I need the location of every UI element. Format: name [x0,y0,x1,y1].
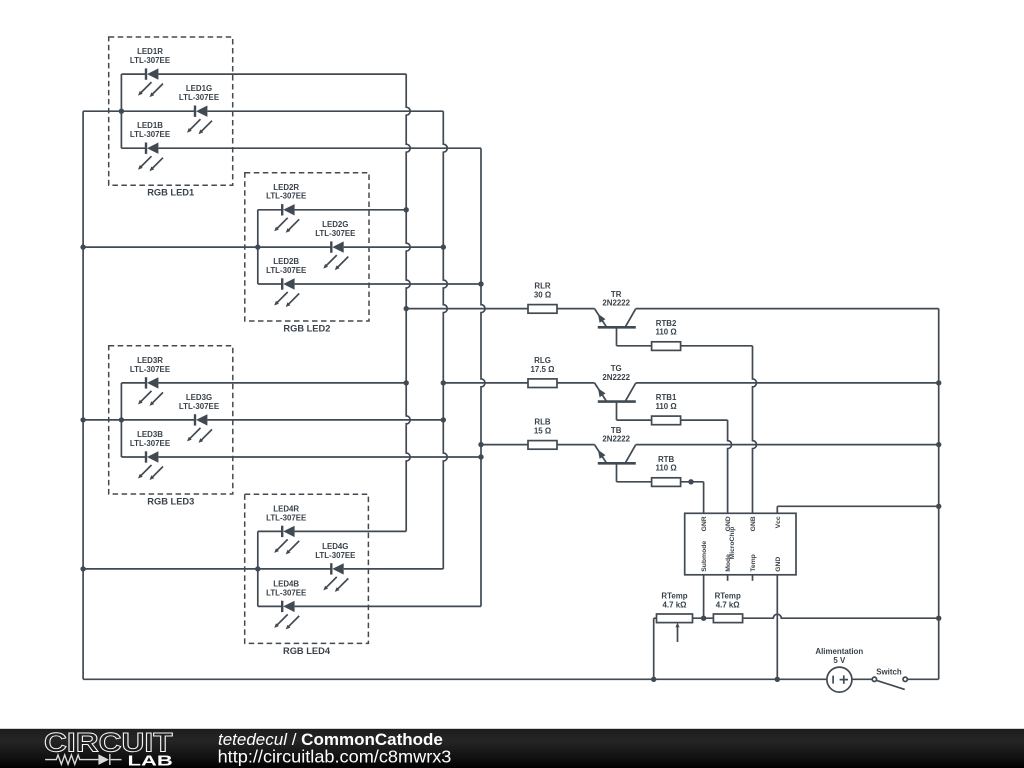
node inner junction RGB LED2 [255,244,260,249]
svg-text:Mode: Mode [725,554,732,572]
svg-text:RTB: RTB [658,455,675,464]
svg-text:GNB: GNB [750,516,757,531]
LED LED3R LTL-307EE [130,356,170,406]
LED LED2B LTL-307EE [266,257,306,307]
svg-text:LED1B: LED1B [137,121,163,130]
svg-text:RTB1: RTB1 [656,393,677,402]
LED LED4R LTL-307EE [266,504,306,554]
svg-text:LTL-307EE: LTL-307EE [315,229,355,238]
wire collector TG to right rail [636,382,939,384]
svg-text:Vcc: Vcc [775,516,782,528]
node common junction LED3 [80,417,85,422]
node red bus junction LED2R [404,207,409,212]
LED LED1G LTL-307EE [179,84,219,134]
node inner junction RGB LED3 [119,417,124,422]
svg-text:17.5 Ω: 17.5 Ω [531,365,555,374]
potentiometer RTemp 4.7 k&#937; [657,591,693,642]
wire right rail vertical [908,309,939,680]
svg-text:LTL-307EE: LTL-307EE [130,130,170,139]
node inner junction RGB LED1 [119,109,124,114]
svg-text:4.7 kΩ: 4.7 kΩ [716,600,740,609]
wire inner cathode vertical RGB LED4 [257,531,259,606]
svg-text:30 Ω: 30 Ω [534,291,551,300]
resistor RLR 30 &#937; [528,282,557,314]
resistor RTB 110 &#937; [652,455,681,487]
svg-text:LTL-307EE: LTL-307EE [266,588,306,597]
svg-text:2N2222: 2N2222 [602,435,630,444]
wire bottom ground rail [83,678,827,680]
svg-text:LTL-307EE: LTL-307EE [315,551,355,560]
svg-text:LED2R: LED2R [273,183,299,192]
wire common cathode of RGB LED4 to left rail [83,568,258,570]
wire collector TB to right rail [636,444,939,446]
wire collector TR to right rail [636,308,939,310]
svg-text:LED3B: LED3B [137,430,163,439]
node blue bus junction LED3B [478,454,483,459]
transistor TB 2N2222 [595,426,636,464]
dashed box RGB LED4 [245,494,369,656]
pin label Submode [701,541,708,572]
voltage source V1 Alimentation 5 V [815,647,863,692]
pin label Temp [750,554,757,572]
wire RTB1 to chip pin GND [681,420,732,513]
node right rail junction Vcc [936,504,941,509]
svg-text:LED3R: LED3R [137,356,163,365]
LED LED4B LTL-307EE [266,579,306,629]
svg-text:5 V: 5 V [833,656,846,665]
svg-text:RTB2: RTB2 [656,319,677,328]
svg-text:LTL-307EE: LTL-307EE [130,56,170,65]
svg-text:LED1R: LED1R [137,47,163,56]
resistor RTB2 110 &#937; [652,319,681,351]
resistor RLB 15 &#937; [528,418,557,450]
svg-text:LTL-307EE: LTL-307EE [266,266,306,275]
CircuitLab logo resistor-diode glyph [45,754,121,765]
node right rail junction TB [936,442,941,447]
dashed box RGB LED2 [245,173,369,334]
svg-text:LTL-307EE: LTL-307EE [266,192,306,201]
wire RTemp2 to right rail [743,614,939,618]
node green bus junction LED2G [441,244,446,249]
footer bar [0,729,1024,768]
transistor TR 2N2222 [595,290,636,328]
node inner junction RGB LED4 [255,566,260,571]
wire blue bus vertical [481,148,485,606]
svg-text:http://circuitlab.com/c8mwrx3: http://circuitlab.com/c8mwrx3 [218,746,452,766]
node blue bus junction RLB [478,442,483,447]
pin stub Temp [752,575,754,581]
pin stub Mode [727,575,729,581]
svg-text:LED1G: LED1G [186,84,212,93]
dashed box RGB LED1 [109,37,233,198]
wire RTemp1 left leg [654,618,657,679]
wire anode row LED1G [121,110,443,112]
pin label GND bottom [775,557,782,572]
wire left common-cathode rail [82,111,84,679]
svg-text:110 Ω: 110 Ω [655,402,676,411]
wire inner cathode vertical RGB LED1 [120,74,122,148]
LED LED4G LTL-307EE [315,542,355,592]
svg-text:TR: TR [611,290,622,299]
svg-text:LED2B: LED2B [273,257,299,266]
svg-text:LED3G: LED3G [186,393,212,402]
wire battery to switch [852,678,872,680]
LED LED1B LTL-307EE [130,121,170,171]
wire RTB2 to chip pin GNB [681,346,757,514]
svg-text:TG: TG [611,364,622,373]
wire anode row LED1B [121,147,481,149]
wire Vcc pin to right rail [777,506,938,513]
wire common cathode of RGB LED2 to left rail [83,246,258,248]
wire base TB [617,463,652,482]
node common junction LED2 [80,244,85,249]
svg-text:LTL-307EE: LTL-307EE [179,93,219,102]
svg-text:Alimentation: Alimentation [815,647,863,656]
pin label GND top [725,516,732,531]
svg-text:LED2G: LED2G [322,220,348,229]
svg-text:LTL-307EE: LTL-307EE [266,513,306,522]
wire red bus vertical [406,74,410,531]
svg-text:110 Ω: 110 Ω [655,328,676,337]
node green bus junction RLG [441,380,446,385]
svg-text:GND: GND [775,557,782,572]
wire RTemp1 to RTemp2 [693,617,714,619]
wire base TR [617,327,652,346]
wire anode row LED4R [258,530,406,532]
wire RLR row [406,308,594,310]
resistor RTemp 4.7 k&#937; [713,591,742,622]
switch SW1 [872,667,907,689]
pin label Mode [725,554,732,572]
LED LED3B LTL-307EE [130,430,170,480]
svg-text:RGB LED3: RGB LED3 [147,497,194,507]
pin label GNR [701,516,708,531]
node RTemp row junction Submode [701,616,706,621]
svg-text:2N2222: 2N2222 [602,373,630,382]
wire anode row LED1R [121,73,406,75]
svg-text:RTemp: RTemp [661,591,687,600]
node green bus junction LED3G [441,417,446,422]
node blue bus junction LED2B [478,281,483,286]
wire green bus vertical [443,111,447,569]
node red bus junction RLR [404,306,409,311]
svg-text:15 Ω: 15 Ω [534,427,551,436]
svg-text:Switch: Switch [876,667,902,676]
pin label Vcc [775,516,782,528]
svg-text:Submode: Submode [701,541,708,572]
svg-text:LTL-307EE: LTL-307EE [130,365,170,374]
svg-text:RLR: RLR [534,282,551,291]
wire GND pin to bottom rail [776,575,778,680]
node right rail junction RTemp [936,616,941,621]
node red bus junction LED3R [404,380,409,385]
svg-text:RGB LED1: RGB LED1 [147,188,194,198]
svg-text:RGB LED2: RGB LED2 [283,324,330,334]
LED LED2R LTL-307EE [266,183,306,233]
node RTemp1 bottom junction [651,677,656,682]
wire anode row LED3G [121,419,443,421]
svg-text:LTL-307EE: LTL-307EE [130,439,170,448]
wire anode row LED3R [121,382,406,384]
wire RTB to chip pin GNR [681,482,704,514]
LED LED1R LTL-307EE [130,47,170,97]
wire Submode pin to RTemp row [703,575,705,618]
LED LED2G LTL-307EE [315,220,355,270]
wire anode row LED3B [121,456,481,458]
node right rail junction TG [936,380,941,385]
svg-text:Temp: Temp [750,554,757,572]
svg-text:RGB LED4: RGB LED4 [283,646,331,656]
wire anode row LED2R [258,209,406,211]
svg-text:4.7 kΩ: 4.7 kΩ [663,600,687,609]
wire anode row LED4G [258,568,444,570]
wire anode row LED2G [258,246,444,248]
pin label GNB [750,516,757,531]
svg-text:GNR: GNR [701,516,708,531]
wire RLB row [481,444,595,446]
wire anode row LED4B [258,605,481,607]
chip name MicroChip [729,527,736,560]
resistor RLG 17.5 &#937; [528,356,557,388]
wire anode row LED2B [258,283,481,285]
svg-text:LED4B: LED4B [273,579,299,588]
LED LED3G LTL-307EE [179,393,219,443]
IC U1 MicroChip body [685,513,796,575]
transistor TG 2N2222 [595,364,636,402]
node common junction LED4 [80,566,85,571]
svg-text:LED4R: LED4R [273,504,299,513]
wire inner cathode vertical RGB LED2 [257,210,259,284]
svg-text:RLB: RLB [534,418,551,427]
node GND pin bottom junction [775,677,780,682]
svg-text:110 Ω: 110 Ω [655,464,676,473]
node RTB output junction [688,479,693,484]
wire common cathode of RGB LED1 to left rail [83,110,121,112]
dashed box RGB LED3 [109,346,233,507]
wire base TG [617,402,652,421]
svg-text:TB: TB [611,426,622,435]
svg-text:LTL-307EE: LTL-307EE [179,402,219,411]
svg-text:RLG: RLG [534,356,551,365]
svg-text:LED4G: LED4G [322,542,348,551]
svg-text:2N2222: 2N2222 [602,299,630,308]
wire inner cathode vertical RGB LED3 [120,383,122,457]
svg-text:LAB: LAB [128,753,173,768]
wire common cathode of RGB LED3 to left rail [83,419,121,421]
wire RLG row [443,382,594,384]
resistor RTB1 110 &#937; [652,393,681,425]
svg-text:RTemp: RTemp [715,591,741,600]
